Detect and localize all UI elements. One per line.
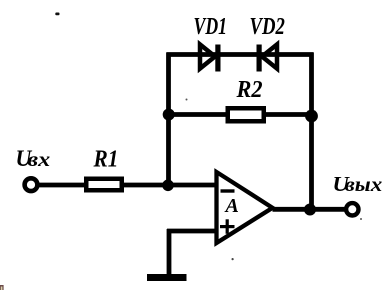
svg-text:вых: вых: [345, 173, 383, 195]
svg-text:вх: вх: [27, 148, 50, 171]
svg-text:A: A: [224, 195, 239, 217]
svg-text:VD1: VD1: [194, 12, 228, 39]
svg-text:VD2: VD2: [250, 13, 286, 40]
svg-text:R1: R1: [93, 145, 119, 171]
svg-text:R2: R2: [236, 76, 263, 103]
